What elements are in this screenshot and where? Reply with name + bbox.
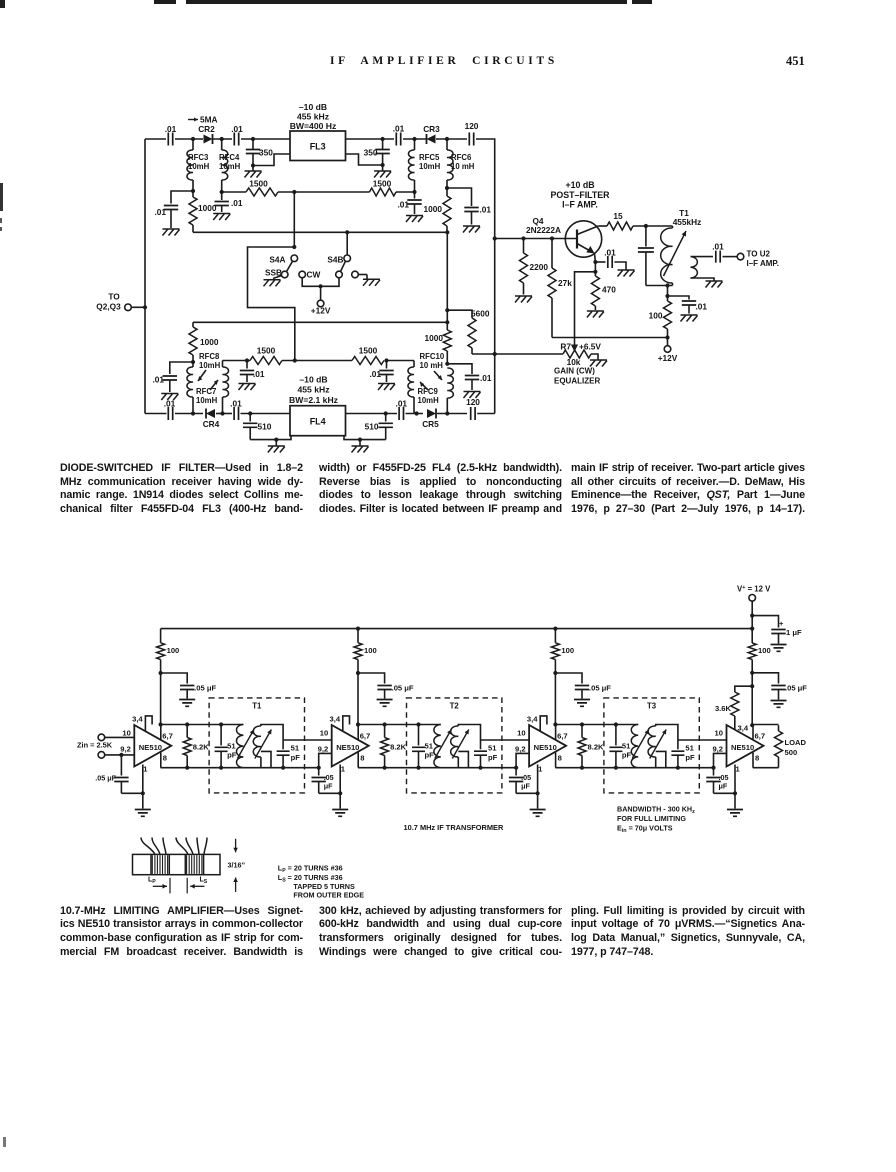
wire: bottom rail seg5 [346,413,398,415]
pin 3,4 loop (stage 2) [343,716,350,731]
svg-text:.01: .01 [231,198,243,208]
svg-text:POST–FILTER: POST–FILTER [551,190,611,200]
svg-text:NE510: NE510 [731,743,754,752]
capacitor .01 (rail2 left) [240,361,265,383]
svg-text:CW: CW [307,270,321,280]
capacitor .01 (RFC5 bottom) [397,192,421,214]
svg-text:.01: .01 [154,207,166,217]
terminal +12V (switch) [311,286,331,315]
node: 8.2K bottom (stage 2) [383,766,387,770]
label bandwidth note [617,805,695,835]
svg-text:pF: pF [685,753,695,762]
node: 51pF top (T1) [219,722,223,726]
node: 470 top [593,270,597,274]
node: input 9,2 junction [119,753,123,757]
ground (stage 1) [135,793,151,816]
svg-text:51: 51 [291,744,300,753]
wire: rail2 left [223,360,251,362]
transformer T1 shield box [209,698,304,793]
node: 9,2 input node (stage 3) [514,766,518,770]
svg-text:510: 510 [365,422,379,432]
pin 8 stub (stage 1) [160,753,162,768]
label gain equalizer [554,367,600,386]
wire: input cap to pin 1 (stage 1) [121,792,142,794]
node: RFC4 top junction [220,137,224,141]
svg-text:3,4: 3,4 [527,715,538,724]
svg-text:10: 10 [715,728,723,737]
svg-text:1000: 1000 [425,333,444,343]
svg-text:9,2: 9,2 [515,745,526,754]
capacitor .01 (RFC6 side) [447,188,491,225]
node: pin1 junction (stage 4) [733,791,737,795]
resistor 27k [548,239,572,338]
slug arrow (T1 secondary) [255,730,272,759]
node: 350L bottom [251,163,255,167]
registration bar 3 [632,0,652,4]
inductor RFC9 [408,361,439,414]
svg-text:RFC6: RFC6 [451,153,472,162]
resistor 5600 [447,309,490,355]
wire: network bottom bus (stage 4) [753,767,779,769]
label pin 10 (stage 2) [0,0,1,1]
node: RFC3 top junction [191,137,195,141]
pin 1 stub (stage 2) [339,765,341,794]
svg-text:pF: pF [622,751,632,760]
ground (stage 3) [530,793,546,816]
node: 100 top [665,294,669,298]
wire: collector to 15 [598,225,607,227]
label FL4 specs [289,375,338,406]
node: 51pF bottom (T3) [614,766,618,770]
capacitor 510 (right) [365,414,393,440]
svg-text:8: 8 [163,754,167,763]
wire: stage 3 collector feed [554,673,556,725]
svg-text:3,4: 3,4 [132,715,143,724]
label 5MA with arrow [188,115,218,125]
svg-text:CR5: CR5 [422,419,439,429]
node: 5600 tap [445,308,449,312]
ground (1uF) [771,645,787,652]
node: S4B tap on rail 232 [345,230,349,234]
svg-text:+10 dB: +10 dB [565,180,594,190]
wire: V+ vertical [751,616,753,643]
resistor 1500 (lower right) [352,346,384,365]
label pin 10 (stage 3) [0,0,1,1]
pin 6,7 stub (stage 2) [357,725,359,740]
node: +12V supply node [665,335,669,339]
svg-text:500: 500 [785,748,798,757]
svg-text:10.7 MHz IF TRANSFORMER: 10.7 MHz IF TRANSFORMER [404,823,504,832]
resistor 3.6K (stage 4) [715,686,752,729]
node: 9,2 input node (stage 2) [317,766,321,770]
inductor RFC4 [219,139,241,192]
wire: input cap to pin 1 (stage 2) [319,792,341,794]
svg-text:Zin = 2.5K: Zin = 2.5K [77,740,113,749]
node: RFC6 top junction [445,137,449,141]
svg-text:.01: .01 [397,200,409,210]
svg-text:.01: .01 [231,124,243,134]
ground (.01 RFC3 side) [163,229,180,236]
terminal input pin 9,2 [98,752,134,759]
wire: secondary top to output cap [691,256,714,258]
label pin 10 (stage 4) [0,0,1,1]
svg-text:S4A: S4A [269,255,285,265]
capacitor 510 (left) [243,414,272,440]
wire: mid rail RFC4 to 1500 [222,191,246,193]
pin 3,4 loop (stage 1) [145,716,152,731]
label winding data [278,864,364,900]
svg-text:9,2: 9,2 [318,745,329,754]
svg-text:NE510: NE510 [336,743,359,752]
svg-text:RFC5: RFC5 [419,153,440,162]
label arrow RFC7 [210,380,218,390]
resistor 100 (stage 4) [748,643,770,673]
node: 1uF tap [750,614,754,618]
node: 100 bottom (stage 3) [553,671,557,675]
wire: left vertical bus [144,139,146,414]
capacitor 51pF input (T2) [412,725,434,768]
svg-text:I–F AMP.: I–F AMP. [562,200,598,210]
node: 8.2K bottom (stage 3) [580,766,584,770]
svg-text:R7: R7 [560,342,571,352]
capacitor .01 (emitter bypass) [595,248,616,269]
wire: mid rail center [278,191,370,193]
transformer T1 primary [236,725,243,768]
node: 9,2 input node (stage 4) [711,766,715,770]
node: bias bus junction [493,352,497,356]
capacitor 350 (right) [364,139,390,165]
node: 8.2K top (stage 3) [580,722,584,726]
svg-text:6,7: 6,7 [360,732,371,741]
node: 350R top junction [381,137,385,141]
diode CR4 [203,409,220,430]
label arrow RFC9 [420,382,428,390]
svg-text:FROM OUTER EDGE: FROM OUTER EDGE [293,890,364,899]
wire: 15 to tank [633,225,673,227]
resistor 1500 (upper left) [246,179,278,197]
svg-text:8.2K: 8.2K [193,743,210,752]
wire: rail2 center [282,360,352,362]
wire: top rail right corner, right-side vertical bus [476,139,495,414]
svg-text:10: 10 [122,728,130,737]
node: 51pF bottom (T1) [219,766,223,770]
ground (bypass, stage 4) [771,701,787,708]
IC NE510 (stage 1) [120,715,173,774]
node: rail2 switch tap [293,358,297,362]
svg-text:8: 8 [558,754,562,763]
terminal +12V (amp) [658,338,678,364]
capacitor .05uF input (stage 2) [312,768,334,794]
svg-text:10mH: 10mH [199,361,221,370]
wire: T1 output to pin 10 [283,739,332,741]
pin 1 stub (stage 3) [537,765,539,794]
svg-text:.05 μF: .05 μF [194,684,216,693]
node: 510R junction [384,411,388,415]
label Zin [77,740,113,749]
wire: input cap to pin 1 (stage 4) [714,792,736,794]
svg-text:51: 51 [425,742,434,751]
wire: supply rail [161,628,753,630]
transformer T1 secondary [253,725,283,768]
wire: 510L to FL4 pin [250,436,291,440]
resistor 100 [649,296,672,338]
svg-text:pF: pF [291,753,301,762]
resistor 100 (stage 1) [157,629,180,673]
svg-text:FOR FULL LIMITING: FOR FULL LIMITING [617,814,686,823]
resistor 470 [591,272,616,310]
label Q4 2N2222A [526,216,561,235]
wire: S4A bypass loop [248,247,295,361]
node: mid rail switch tap [292,190,296,194]
node: 51pF top (T2) [416,722,420,726]
wire: CR2 to cap [213,138,232,140]
svg-text:RFC7: RFC7 [196,387,216,396]
capacitor 1uF [752,616,802,644]
terminal V+ 12V [737,585,771,616]
dimension 3/16in [228,839,246,892]
wire: network bottom bus (stage 3) [555,767,713,769]
svg-text:.01: .01 [165,124,177,134]
diode CR3 [423,124,440,144]
svg-text:.05 μF: .05 μF [95,774,116,783]
svg-text:1: 1 [538,765,543,774]
registration bar 2 [186,0,627,4]
svg-text:100: 100 [649,311,663,321]
svg-text:6,7: 6,7 [162,732,173,741]
node: .05 tap (stage 4) [750,671,754,675]
node: 100 bottom (stage 1) [159,671,163,675]
ground (SSB throw) [264,276,282,287]
svg-text:8.2K: 8.2K [390,743,407,752]
left edge mark [0,183,3,211]
svg-text:RFC4: RFC4 [219,153,240,162]
svg-text:8: 8 [360,754,364,763]
svg-text:51: 51 [488,744,497,753]
dimension Lp Ls arrows [153,878,205,894]
svg-text:3/16'': 3/16'' [228,861,246,870]
wire: bottom rail seg4 [241,413,291,415]
svg-text:EQUALIZER: EQUALIZER [554,377,600,386]
resistor 1000 (lower left) [189,322,219,362]
svg-text:10mH: 10mH [219,162,241,171]
svg-text:120: 120 [465,121,479,131]
svg-text:RFC3: RFC3 [188,153,209,162]
ground (.01 RFC4) [213,214,230,221]
svg-text:15: 15 [613,211,623,221]
svg-text:pF: pF [488,753,498,762]
ground (unused throw) [363,279,380,286]
node: 510L ground junction [274,438,278,442]
node: RFC10 top [445,362,449,366]
transformer T3 shield box [604,698,699,793]
ground (.01 RFC8) [161,394,178,401]
capacitor .05uF supply bypass (stage 1) [161,673,217,699]
node: base feed junction [493,236,497,240]
svg-text:2N2222A: 2N2222A [526,225,561,235]
svg-text:1000: 1000 [200,337,219,347]
node: RFC4 bottom [220,190,224,194]
resistor 1500 (upper right) [370,179,397,197]
wire: CR3 to 120 cap [436,138,467,140]
svg-text:27k: 27k [558,278,572,288]
capacitor 51pF output (T3) [671,740,695,768]
filter FL3 [290,131,346,161]
node: 1500 lower-right junction [384,358,388,362]
resistor 100 (stage 2) [354,629,377,673]
wire: 510R to FL4 pin [344,436,386,440]
filter FL4 [290,406,346,436]
potentiometer R7 10k [560,342,601,368]
svg-text:350: 350 [259,148,273,158]
capacitor .05uF supply bypass (stage 2) [358,673,414,699]
capacitor tank (T1 primary parallel) [638,226,654,286]
svg-text:.01: .01 [152,375,164,385]
wire: rail 232 [193,231,447,233]
svg-text:V+ = 12 V: V+ = 12 V [737,585,771,594]
svg-text:.01: .01 [480,373,492,383]
svg-text:BW=400 Hz: BW=400 Hz [290,121,337,131]
node: rail 232 right junction [445,230,449,234]
capacitor .01 (input, top-left) [165,124,177,146]
svg-text:1500: 1500 [373,179,392,189]
node: supply rail right end [750,627,754,631]
transformer T2 primary [434,725,441,768]
svg-text:μF: μF [719,782,728,791]
svg-text:Ein = 70μ VOLTS: Ein = 70μ VOLTS [617,824,673,835]
wire: rail2 to RFC9 [387,360,415,362]
svg-text:TO: TO [108,292,120,302]
wire: top rail to CR2 [175,138,203,140]
transformer T3 secondary [648,725,678,768]
ground (R7) [590,360,607,367]
capacitor 120 (series, bottom right) [466,397,480,420]
wire: bottom rail seg3 [216,413,232,415]
transistor Q4 [565,221,601,257]
svg-text:.01: .01 [712,242,724,252]
capacitor .05uF input (stage 1) [95,755,128,793]
node: 51pF output bottom (T2) [478,766,482,770]
svg-text:120: 120 [466,397,480,407]
svg-text:455 kHz: 455 kHz [297,112,329,122]
svg-text:1500: 1500 [257,346,276,356]
svg-text:1000: 1000 [198,203,217,213]
svg-text:μF: μF [324,782,333,791]
svg-text:+: + [779,619,784,628]
svg-text:2200: 2200 [530,262,549,272]
wire: network top bus (stage 2) [358,724,441,726]
node: S4A feed junction [292,245,296,249]
svg-text:10mH: 10mH [188,162,210,171]
wire: cap to CR3 [403,138,426,140]
svg-text:10mH: 10mH [419,162,441,171]
node: output bus top (stage 1) [159,722,163,726]
svg-text:+6.5V: +6.5V [579,342,601,352]
switch S4B [327,232,350,278]
node: RFC5 top junction [412,137,416,141]
svg-text:FL3: FL3 [310,142,326,152]
pin 8 stub (stage 3) [555,753,557,768]
svg-text:NE510: NE510 [139,743,162,752]
svg-text:8.2K: 8.2K [588,743,605,752]
ground (.01 RFC10) [464,392,481,399]
pin 1 stub (stage 4) [734,765,736,794]
svg-text:RFC10: RFC10 [420,352,445,361]
wire: lower top rail [193,321,447,323]
capacitor .01 (bottom input) [164,399,176,421]
inductor RFC7 [196,361,229,414]
wire: FL3 to cap (right) [346,138,395,140]
node: 51pF output bottom (T3) [676,766,680,770]
pin 6,7 stub (stage 3) [555,725,557,740]
wire: bottom rail left [145,413,167,415]
svg-text:I–F AMP.: I–F AMP. [747,259,779,268]
node: 8.2K bottom (stage 1) [185,766,189,770]
node: RFC10 bottom [445,411,449,415]
node: 1500 lower-left junction [245,358,249,362]
svg-text:.01: .01 [164,399,176,409]
capacitor .01 (RFC3 side) [154,191,193,228]
resistor 8.2K (stage 1) [183,725,209,768]
svg-text:FL4: FL4 [310,417,326,427]
svg-text:1: 1 [736,765,741,774]
node: RFC8 top [191,360,195,364]
resistor 15 [607,211,633,230]
label 10.7 MHz IF transformer [404,823,504,832]
capacitor .01 (RFC4 bottom) [215,192,243,212]
wire: bottom rail seg7 [437,413,467,415]
wire: 9,2 input (stage 3) [516,753,529,767]
svg-text:T1: T1 [252,702,262,711]
ground (stage 4) [727,793,743,816]
node: 51pF bottom (T2) [416,766,420,770]
svg-text:9,2: 9,2 [712,745,723,754]
wire: network top bus (stage 4) [753,724,779,726]
capacitor .01 (RFC8 side) [152,362,193,392]
pin 3,4 loop (stage 3) [540,716,547,731]
transformer T2 secondary [451,725,481,768]
ground (350L) [245,166,262,178]
wire: stage 1 collector feed [160,673,162,725]
transformer T1 secondary [691,257,698,278]
capacitor .01 (tank bypass) [668,296,708,314]
svg-text:Q2,Q3: Q2,Q3 [96,302,121,312]
svg-text:51: 51 [227,742,236,751]
capacitor .01 (series, lower right) [396,399,408,421]
wire: 9,2 input (stage 4) [714,753,727,767]
pin 6,7 stub (stage 1) [160,725,162,740]
capacitor 51pF output (T2) [474,740,498,768]
IC NE510 (stage 2) [318,715,371,774]
wire: 27k bottom to +12V node [552,337,668,339]
node: supply rail stage2 tap [356,627,360,631]
page number 451 [786,54,805,69]
svg-text:.01: .01 [396,399,408,409]
node: +12V tap [319,284,323,288]
terminal TO Q2,Q3 [96,292,145,312]
svg-text:–10 dB: –10 dB [299,375,327,385]
svg-text:RFC8: RFC8 [199,352,220,361]
ground (510R) [352,440,369,453]
label Lp [148,877,156,885]
inductor RFC10 [420,352,454,414]
corner mark [0,0,5,8]
svg-text:10: 10 [320,728,328,737]
node: TO Q2,Q3 tap [143,305,147,309]
svg-text:9,2: 9,2 [120,745,131,754]
ground (bypass, stage 2) [377,700,393,707]
node: 510R ground junction [358,438,362,442]
ground (470) [587,311,604,318]
